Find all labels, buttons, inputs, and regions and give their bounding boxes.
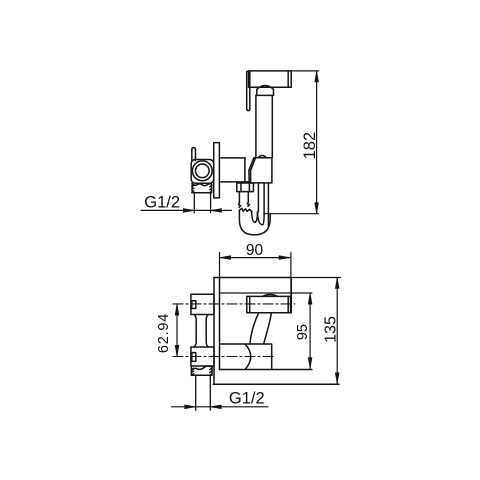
spray head end cap line <box>287 71 289 87</box>
dim 95 line <box>309 293 311 369</box>
dim 182 arrow up <box>315 71 319 82</box>
dim 135 top extension <box>293 277 340 279</box>
dim 62.94 arrow up <box>175 304 179 315</box>
dim 95 arrow up <box>308 293 312 304</box>
nozzle face plate <box>247 71 250 110</box>
dim 90 right arrow <box>279 256 290 260</box>
handle socket cylinder <box>220 344 272 370</box>
svg-text:135: 135 <box>323 316 340 343</box>
dim 62.94 arrow down <box>175 345 179 356</box>
dim G1/2 top left arrow <box>183 209 194 213</box>
dim 95 arrow down <box>308 358 312 369</box>
hex nut flats <box>241 183 249 192</box>
hose return line B <box>263 183 265 214</box>
box bottom plate / 135 extension <box>213 383 339 385</box>
hose break wave <box>239 208 251 211</box>
bottom thread stub <box>191 366 212 375</box>
hose broken end tongue <box>252 211 258 222</box>
dim G1/2 top right arrow <box>211 209 222 213</box>
dim 90 extension lines <box>220 253 291 297</box>
hose return line C <box>267 183 269 226</box>
curved tube right edge <box>264 313 272 344</box>
nipple walls / G1/2 extension lines <box>194 193 210 213</box>
box inner left wall <box>219 278 221 370</box>
wall escutcheon plate <box>214 143 220 198</box>
G1/2 bottom extension lines <box>196 375 211 410</box>
valve knob outer ring <box>192 161 212 181</box>
spout top bump arc <box>263 295 278 297</box>
dim 135 arrow down <box>335 373 339 384</box>
dim G1/2 bottom left arrow <box>185 405 196 409</box>
dim G1/2 top line <box>141 209 231 211</box>
valve lever stick <box>192 148 196 161</box>
valve body <box>191 160 214 184</box>
dim 182 bottom extension line <box>264 213 319 215</box>
dim 135 arrow up <box>335 278 339 289</box>
hose return line A <box>257 183 259 212</box>
svg-text:95: 95 <box>295 324 311 340</box>
dim 90 left arrow <box>220 256 231 260</box>
box outer left wall <box>213 278 215 385</box>
center line bottom port <box>173 356 276 358</box>
bottom port cap bar <box>192 353 196 362</box>
svg-text:G1/2: G1/2 <box>144 194 180 212</box>
holder block <box>249 158 272 183</box>
hose upper right line <box>247 192 249 207</box>
valve thread stub <box>192 184 211 193</box>
spout cartridge rect <box>247 296 291 312</box>
spray head body <box>249 71 292 87</box>
bottom thread hatch right <box>210 368 213 376</box>
curved tube left edge <box>250 313 259 344</box>
hose upper left line <box>239 192 241 208</box>
box right edge <box>290 278 292 313</box>
hose inner loop arc <box>258 212 265 225</box>
thread hatch right <box>210 185 212 192</box>
hose outer loop <box>239 210 270 235</box>
box top edge <box>214 277 292 279</box>
holder block inner diagonal <box>251 158 256 183</box>
svg-text:G1/2: G1/2 <box>229 390 265 408</box>
top inlet port <box>191 294 214 314</box>
dim 62.94 line <box>176 304 178 356</box>
bottom inlet port <box>191 347 214 366</box>
socket dome arc <box>245 344 250 369</box>
dim G1/2 bottom right arrow <box>210 405 221 409</box>
dim G1/2 bottom line <box>171 406 268 408</box>
head collar dome arc <box>257 86 274 90</box>
dim 90 line <box>220 257 289 259</box>
svg-text:62.94: 62.94 <box>156 313 172 353</box>
cavity top line / 95 extension <box>220 292 312 294</box>
thread hatch left <box>192 185 194 192</box>
svg-text:182: 182 <box>301 132 319 160</box>
valve knob inner ring <box>196 164 210 178</box>
svg-text:90: 90 <box>246 242 264 259</box>
bottom thread stub break wave <box>191 366 212 371</box>
dim 182 line <box>316 72 318 214</box>
valve break wave <box>192 183 212 185</box>
sprayer handle <box>256 95 272 157</box>
dim 182 top extension line <box>291 70 318 72</box>
connecting pipe neck <box>194 315 208 348</box>
bottom thread hatch left <box>191 368 194 375</box>
box inner bottom / 95 extension <box>220 369 312 371</box>
dim 135 line <box>336 278 338 384</box>
hose hex nut <box>237 183 254 192</box>
dim 182 arrow down <box>315 203 319 214</box>
holder block top bump <box>258 156 266 158</box>
top port cap bar <box>192 301 196 309</box>
holder clip left edge <box>244 158 246 182</box>
spout cartridge end caps <box>250 296 289 312</box>
head collar <box>256 89 274 95</box>
valve outlet arm <box>219 158 249 182</box>
center line top port <box>173 303 295 305</box>
